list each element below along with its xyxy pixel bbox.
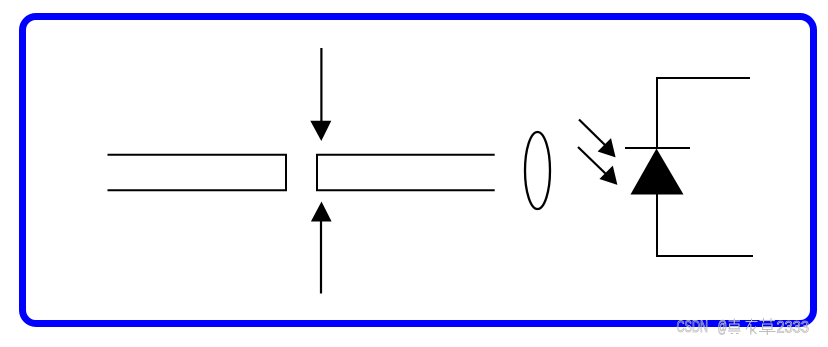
wire top vertical	[656, 78, 658, 148]
slit plate left (open-ended bar)	[108, 155, 287, 191]
svg-text:CSDN: CSDN	[677, 317, 709, 336]
photodiode D1 triangle	[631, 149, 684, 195]
light ray arrow 1	[579, 120, 616, 158]
wire top horizontal	[656, 77, 750, 79]
slit plate right (open-ended bar)	[317, 155, 495, 191]
lens (ellipse)	[525, 132, 550, 209]
watermark	[677, 317, 810, 337]
CJK glyph 2 (yi)	[746, 319, 758, 335]
wire bottom horizontal	[656, 255, 753, 257]
CJK glyph 1 (xun)	[728, 319, 741, 334]
svg-text:2333: 2333	[777, 318, 810, 337]
CJK glyph 3 (cao)	[759, 318, 776, 335]
wire bottom vertical	[656, 194, 658, 256]
photodiode D1 cathode bar	[625, 147, 690, 149]
arrow up (bottom gap pointer)	[311, 202, 332, 294]
arrow down (top gap pointer)	[310, 48, 331, 141]
svg-text:@: @	[718, 317, 728, 336]
light ray arrow 2	[578, 147, 617, 185]
